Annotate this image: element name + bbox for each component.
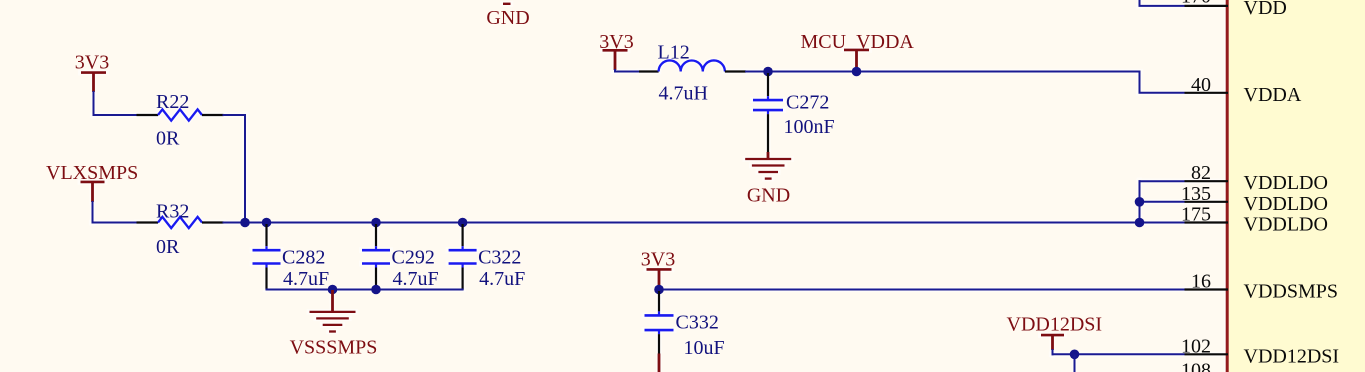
- wire VLXSMPS to R32: [92, 201, 138, 224]
- svg-text:40: 40: [1191, 74, 1211, 96]
- pin 82 VDDLDO: [1185, 162, 1328, 194]
- C292 lower lead: [375, 268, 377, 290]
- svg-text:C322: C322: [478, 246, 521, 268]
- pin 40 VDDA: [1185, 74, 1302, 106]
- L12 right pin: [725, 70, 746, 72]
- junction C292 top: [371, 218, 381, 228]
- svg-text:C332: C332: [676, 312, 719, 334]
- svg-text:4.7uF: 4.7uF: [283, 268, 329, 290]
- svg-text:VDDA: VDDA: [1244, 84, 1302, 106]
- wire L12 to VDDA pin: [745, 72, 1185, 93]
- junction R22/R32 node: [240, 218, 250, 228]
- wire VDDLDO risers: [1139, 180, 1185, 222]
- svg-text:100nF: 100nF: [784, 116, 835, 138]
- power port GND (C272): [745, 152, 791, 207]
- svg-text:VDD12DSI: VDD12DSI: [1007, 314, 1103, 336]
- wire caps bottom rail: [266, 289, 464, 290]
- power port MCU_VDDA: [801, 31, 915, 70]
- inductor L12: [658, 42, 725, 105]
- power port 3V3 (R22): [75, 51, 109, 92]
- junction VSSSMPS node: [328, 285, 338, 295]
- svg-text:R22: R22: [156, 91, 189, 113]
- svg-text:VDDSMPS: VDDSMPS: [1244, 281, 1338, 303]
- svg-text:4.7uF: 4.7uF: [393, 268, 439, 290]
- power port GND stem (C332, cut off): [658, 354, 661, 372]
- pin 102 VDD12DSI: [1181, 335, 1339, 367]
- junction C332 node: [654, 285, 664, 295]
- svg-text:VDD12DSI: VDD12DSI: [1244, 345, 1340, 367]
- svg-text:VSSSMPS: VSSSMPS: [290, 337, 378, 359]
- R32 right pin: [202, 221, 224, 223]
- junction VDD12DSI node: [1070, 350, 1080, 360]
- svg-text:C272: C272: [786, 92, 829, 114]
- svg-text:C282: C282: [282, 246, 325, 268]
- capacitor C272: [753, 73, 835, 138]
- wire to pin 170: [1139, 0, 1185, 6]
- power port GND (top, cut off): [486, 4, 529, 29]
- pin 16 VDDSMPS: [1185, 271, 1338, 303]
- capacitor C292: [362, 224, 439, 290]
- power port VDD12DSI: [1007, 314, 1103, 350]
- junction C292 bottom: [371, 285, 381, 295]
- C282 lower lead: [265, 268, 267, 290]
- svg-text:135: 135: [1181, 183, 1211, 205]
- C332 lower lead: [658, 334, 660, 354]
- wire 3V3 to R22: [93, 91, 138, 116]
- wire VDD12DSI to pin 102: [1052, 349, 1185, 355]
- svg-text:175: 175: [1181, 204, 1211, 226]
- C322 lower lead: [462, 268, 464, 290]
- svg-text:102: 102: [1181, 335, 1211, 357]
- R22 left pin: [137, 114, 159, 116]
- resistor R22: [156, 91, 202, 149]
- IC U1 body: [1227, 0, 1365, 372]
- wire R22 to rail: [223, 114, 247, 223]
- capacitor C322: [449, 224, 526, 290]
- pin 175 VDDLDO: [1181, 204, 1328, 236]
- capacitor C332: [645, 291, 725, 359]
- junction pin175 node: [1135, 218, 1145, 228]
- svg-text:3V3: 3V3: [75, 51, 109, 73]
- wire 3V3 to L12: [614, 69, 640, 72]
- power port VLXSMPS: [46, 162, 138, 202]
- svg-text:0R: 0R: [156, 236, 180, 258]
- svg-text:82: 82: [1191, 162, 1211, 184]
- junction C272 node: [763, 67, 773, 77]
- svg-text:VDDLDO: VDDLDO: [1244, 214, 1328, 236]
- junction MCU_VDDA: [852, 67, 862, 77]
- svg-text:C292: C292: [392, 246, 435, 268]
- svg-text:3V3: 3V3: [641, 249, 675, 271]
- svg-text:170: 170: [1181, 0, 1211, 8]
- C272 lower lead: [767, 114, 769, 152]
- svg-text:VDD: VDD: [1244, 0, 1287, 19]
- svg-text:GND: GND: [486, 7, 529, 29]
- R32 left pin: [137, 221, 159, 223]
- svg-text:GND: GND: [747, 185, 790, 207]
- svg-text:108: 108: [1181, 360, 1211, 372]
- power port VSSSMPS: [290, 290, 378, 359]
- power port 3V3 (L12 input): [599, 31, 633, 70]
- svg-text:4.7uF: 4.7uF: [479, 268, 525, 290]
- pin 108 number: [1181, 360, 1211, 372]
- wire VDDLDO rail: [223, 222, 1141, 224]
- wire 3V3 to VDDSMPS pin: [658, 286, 1185, 290]
- resistor R32: [156, 200, 202, 258]
- power port 3V3 (C332): [641, 249, 675, 287]
- svg-text:0R: 0R: [156, 127, 180, 149]
- svg-text:L12: L12: [658, 42, 690, 64]
- svg-text:4.7uH: 4.7uH: [659, 83, 708, 105]
- capacitor C282: [253, 224, 330, 290]
- pin 170 VDD: [1181, 0, 1287, 19]
- junction pin135 node: [1135, 197, 1145, 207]
- junction C322 top: [458, 218, 468, 228]
- svg-text:R32: R32: [156, 200, 189, 222]
- svg-text:10uF: 10uF: [684, 337, 725, 359]
- R22 right pin: [202, 114, 224, 116]
- pin 135 VDDLDO: [1181, 183, 1328, 215]
- L12 left pin: [639, 70, 659, 72]
- svg-text:VDDLDO: VDDLDO: [1244, 172, 1328, 194]
- wire to pin 108: [1074, 354, 1076, 372]
- svg-text:VDDLDO: VDDLDO: [1244, 193, 1328, 215]
- svg-text:16: 16: [1191, 271, 1211, 293]
- junction C282 top: [262, 218, 272, 228]
